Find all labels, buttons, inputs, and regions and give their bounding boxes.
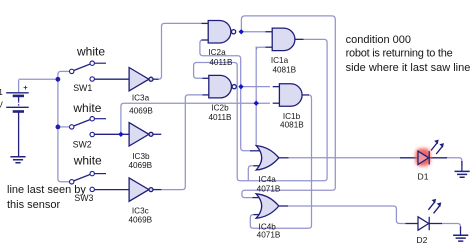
svg-text:4069B: 4069B <box>129 107 153 116</box>
svg-text:SW1: SW1 <box>73 83 92 93</box>
svg-text:IC4a: IC4a <box>259 175 277 184</box>
svg-text:robot is returning to the: robot is returning to the <box>346 47 453 59</box>
svg-text:IC1a: IC1a <box>271 56 289 65</box>
svg-text:white: white <box>73 154 102 168</box>
svg-text:line last seen by: line last seen by <box>7 184 86 196</box>
svg-text:IC2b: IC2b <box>211 103 229 112</box>
svg-text:side where it last saw line: side where it last saw line <box>346 62 471 74</box>
svg-text:IC3a: IC3a <box>132 94 150 103</box>
svg-text:9V: 9V <box>0 101 3 110</box>
svg-text:4069B: 4069B <box>128 216 152 225</box>
svg-text:4071B: 4071B <box>257 184 281 193</box>
svg-text:4069B: 4069B <box>128 161 152 170</box>
svg-text:D1: D1 <box>418 172 429 182</box>
svg-text:4081B: 4081B <box>280 121 304 130</box>
svg-text:IC3c: IC3c <box>132 207 149 216</box>
svg-text:white: white <box>76 45 105 59</box>
svg-text:IC3b: IC3b <box>132 152 150 161</box>
svg-text:D2: D2 <box>416 235 427 245</box>
svg-text:4011B: 4011B <box>209 58 233 67</box>
svg-text:this sensor: this sensor <box>7 199 61 211</box>
svg-text:IC2a: IC2a <box>208 48 226 57</box>
svg-text:4071B: 4071B <box>257 231 281 240</box>
svg-text:+: + <box>23 83 28 92</box>
svg-text:4081B: 4081B <box>272 65 296 74</box>
svg-text:white: white <box>72 101 101 115</box>
svg-text:SW2: SW2 <box>73 140 92 150</box>
svg-text:4011B: 4011B <box>208 113 232 122</box>
svg-text:B1: B1 <box>0 88 3 97</box>
svg-text:condition 000: condition 000 <box>346 34 411 46</box>
